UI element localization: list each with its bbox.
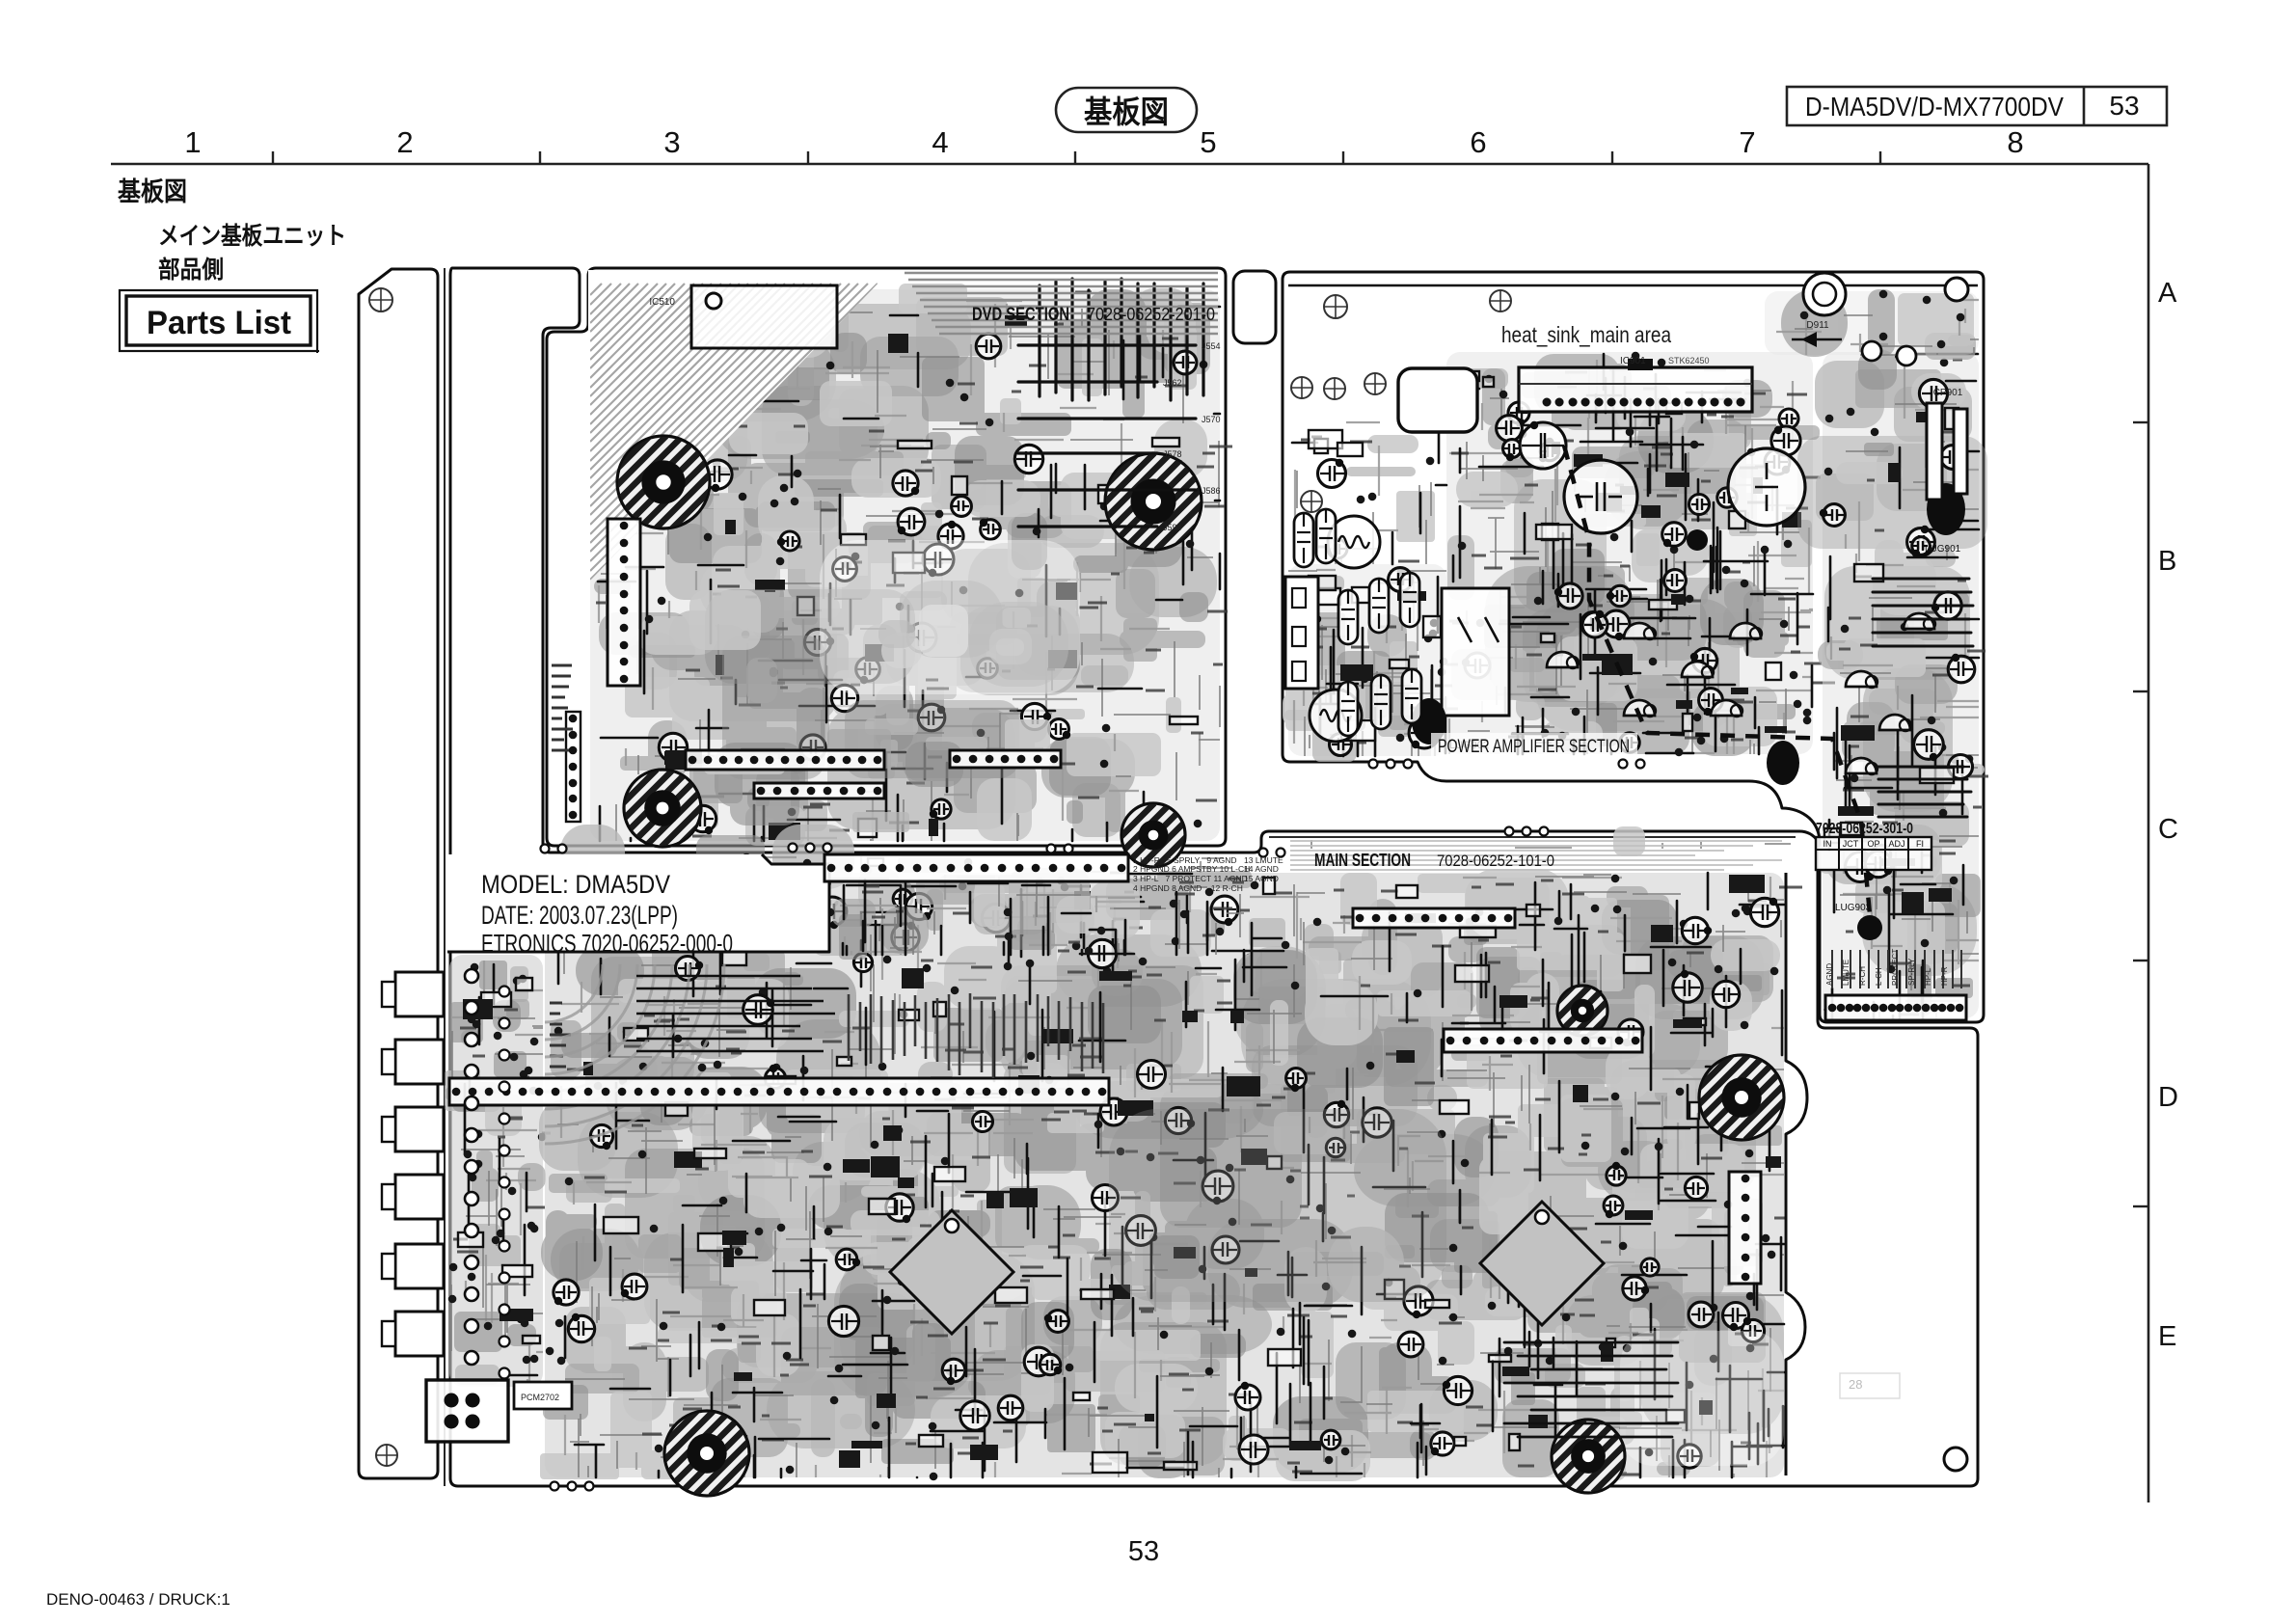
- svg-text:J554: J554: [1202, 341, 1221, 351]
- svg-text:LMUTE: LMUTE: [1842, 960, 1850, 986]
- svg-text:J570: J570: [1202, 415, 1221, 424]
- svg-text:3 HP-L 7 PROTECT 11 AGND: 3 HP-L 7 PROTECT 11 AGND: [1133, 874, 1248, 883]
- svg-text:メイン基板ユニット: メイン基板ユニット: [158, 223, 346, 250]
- svg-text:基板図: 基板図: [118, 177, 187, 206]
- svg-text:L-CH: L-CH: [1875, 967, 1883, 986]
- svg-text:J562: J562: [1163, 378, 1182, 388]
- svg-text:7028-06252-201-0: 7028-06252-201-0: [1087, 305, 1215, 324]
- svg-text:STK62450: STK62450: [1668, 356, 1710, 365]
- svg-text:53: 53: [2109, 91, 2139, 121]
- svg-text:3: 3: [663, 125, 680, 159]
- svg-text:OP: OP: [1867, 839, 1879, 849]
- svg-text:1: 1: [184, 125, 201, 159]
- svg-text:D: D: [2158, 1082, 2178, 1113]
- svg-text:ADJ: ADJ: [1888, 839, 1904, 849]
- svg-text:基板図: 基板図: [1084, 95, 1169, 129]
- svg-text:E: E: [2158, 1321, 2176, 1352]
- svg-text:7028-06252-101-0: 7028-06252-101-0: [1437, 852, 1554, 870]
- svg-text:R-CH: R-CH: [1858, 966, 1867, 986]
- svg-text:7: 7: [1739, 125, 1755, 159]
- svg-text:B: B: [2158, 546, 2176, 577]
- svg-text:53: 53: [1128, 1536, 1159, 1567]
- svg-text:CP901: CP901: [1933, 388, 1963, 398]
- svg-text:D911: D911: [1806, 320, 1829, 331]
- svg-text:6: 6: [1470, 125, 1486, 159]
- svg-text:IC901: IC901: [1620, 356, 1646, 366]
- svg-text:C: C: [2158, 814, 2178, 845]
- svg-text:14 AGND: 14 AGND: [1244, 864, 1279, 874]
- svg-text:2 HPGND 6 AMPSTBY 10 L-CH: 2 HPGND 6 AMPSTBY 10 L-CH: [1133, 864, 1250, 874]
- svg-text:LUG903: LUG903: [1835, 903, 1872, 913]
- svg-text:5: 5: [1200, 125, 1216, 159]
- svg-text:J594: J594: [1163, 523, 1182, 532]
- svg-text:28: 28: [1849, 1377, 1862, 1392]
- svg-text:JCT: JCT: [1843, 839, 1859, 849]
- svg-text:heat_sink_main area: heat_sink_main area: [1501, 322, 1671, 347]
- svg-text:AGND: AGND: [1825, 963, 1834, 986]
- svg-text:D-MA5DV/D-MX7700DV: D-MA5DV/D-MX7700DV: [1805, 92, 2064, 122]
- svg-text:HP-L: HP-L: [1924, 967, 1932, 986]
- svg-text:POWER AMPLIFIER SECTION: POWER AMPLIFIER SECTION: [1438, 737, 1630, 757]
- svg-text:MAIN SECTION: MAIN SECTION: [1314, 851, 1411, 870]
- svg-text:IN: IN: [1823, 839, 1832, 849]
- svg-text:SP-RLY: SP-RLY: [1907, 958, 1916, 986]
- svg-text:8: 8: [2007, 125, 2023, 159]
- svg-text:LUG901: LUG901: [1925, 544, 1961, 555]
- svg-text:4: 4: [932, 125, 948, 159]
- svg-text:Parts List: Parts List: [147, 305, 291, 341]
- svg-text:4 HPGND 8 AGND 12 R-CH: 4 HPGND 8 AGND 12 R-CH: [1133, 883, 1243, 893]
- svg-text:MODEL: DMA5DV: MODEL: DMA5DV: [481, 870, 670, 899]
- svg-text:FI: FI: [1916, 839, 1924, 849]
- svg-text:IC510: IC510: [649, 297, 675, 308]
- svg-text:7028-06252-301-0: 7028-06252-301-0: [1816, 821, 1913, 837]
- svg-text:DENO-00463 / DRUCK:1: DENO-00463 / DRUCK:1: [46, 1590, 230, 1609]
- svg-text:J578: J578: [1163, 449, 1182, 459]
- svg-text:J586: J586: [1202, 486, 1221, 496]
- svg-text:ETRONICS 7020-06252-000-0: ETRONICS 7020-06252-000-0: [481, 929, 733, 958]
- svg-text:A: A: [2158, 278, 2177, 309]
- svg-text:DATE: 2003.07.23(LPP): DATE: 2003.07.23(LPP): [481, 901, 678, 930]
- svg-text:DVD SECTION: DVD SECTION: [972, 305, 1069, 325]
- svg-text:部品側: 部品側: [158, 256, 224, 284]
- svg-text:PROTECT: PROTECT: [1891, 949, 1900, 986]
- svg-text:PCM2702: PCM2702: [521, 1393, 559, 1402]
- svg-text:HP-R: HP-R: [1940, 966, 1949, 986]
- svg-text:15 AGND: 15 AGND: [1244, 874, 1279, 883]
- svg-text:2: 2: [396, 125, 413, 159]
